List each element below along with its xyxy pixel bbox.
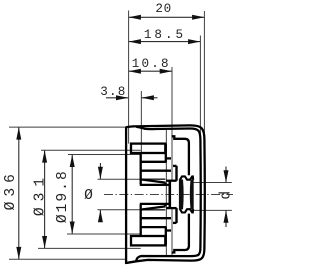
svg-text:Ø31: Ø31 <box>33 172 49 216</box>
svg-text:10.8: 10.8 <box>132 57 171 71</box>
svg-text:20: 20 <box>155 2 171 16</box>
svg-text:d: d <box>219 191 235 200</box>
svg-text:Ø: Ø <box>84 188 93 204</box>
svg-text:3.8: 3.8 <box>100 85 126 99</box>
svg-text:Ø19.8: Ø19.8 <box>55 169 71 223</box>
svg-text:18.5: 18.5 <box>144 28 186 42</box>
svg-text:Ø36: Ø36 <box>3 169 19 210</box>
